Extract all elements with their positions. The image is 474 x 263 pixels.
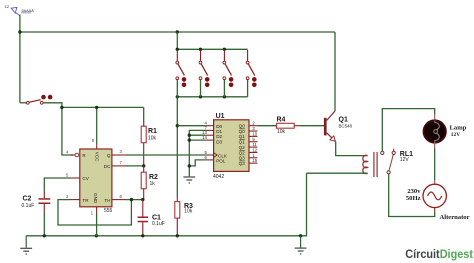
svg-text:5AAAA: 5AAAA bbox=[22, 9, 35, 13]
wire: VCC node horizontal bbox=[43, 103, 62, 108]
svg-text:D3: D3 bbox=[216, 139, 222, 144]
wire: D0 bbox=[177, 125, 205, 127]
node: top-left junction bbox=[18, 30, 21, 33]
svg-text:POL: POL bbox=[216, 158, 226, 163]
relay RL1 bbox=[363, 149, 413, 177]
node: VCC-drop junction bbox=[95, 106, 98, 109]
wire: DC node bbox=[125, 165, 144, 167]
wire: bottom ground rail bbox=[26, 173, 306, 236]
555 timer U2 bbox=[66, 138, 125, 216]
wire: main top rail bbox=[20, 31, 335, 33]
svg-text:Lamp: Lamp bbox=[450, 125, 467, 132]
node: D0 tap bbox=[176, 124, 179, 127]
svg-text:TR: TR bbox=[82, 198, 89, 203]
svg-text:10k: 10k bbox=[277, 129, 286, 135]
core bars bbox=[373, 152, 375, 177]
svg-text:Q3: Q3 bbox=[239, 161, 246, 166]
ground (U1 data inputs) bbox=[183, 177, 195, 183]
svg-text:12: 12 bbox=[5, 4, 10, 9]
svg-text:C2: C2 bbox=[23, 196, 32, 203]
svg-text:14: 14 bbox=[202, 135, 207, 140]
wire: pre-switch segment bbox=[20, 102, 27, 104]
wire: POL to ground net bbox=[189, 160, 205, 166]
contacts bbox=[381, 151, 384, 154]
svg-text:Q2: Q2 bbox=[239, 145, 246, 150]
right pin stubs bbox=[249, 126, 257, 163]
wire: switch bottom rail bbox=[177, 96, 247, 98]
node: reset-drop junction bbox=[60, 106, 63, 109]
wire: TH node bbox=[125, 199, 143, 201]
pin 6 TH bbox=[112, 199, 125, 201]
svg-text:Q0: Q0 bbox=[239, 129, 246, 134]
resistor R3 bbox=[175, 198, 193, 236]
svg-text:R4: R4 bbox=[277, 117, 286, 124]
wire: coil bottom return bbox=[307, 172, 368, 174]
resistor R4 bbox=[257, 117, 299, 136]
svg-text:50Hz: 50Hz bbox=[406, 195, 421, 202]
svg-text:555: 555 bbox=[104, 208, 113, 214]
pin 1 GND bbox=[96, 207, 98, 213]
wire: collector to top rail bbox=[334, 32, 336, 111]
svg-text:Q: Q bbox=[107, 153, 111, 158]
wire: lamp to alternator bbox=[434, 142, 436, 148]
svg-text:TH: TH bbox=[104, 198, 110, 203]
wire: D1/D2/D3 to ground net bbox=[189, 130, 205, 176]
svg-text:0.1uF: 0.1uF bbox=[152, 221, 165, 227]
wire: switch feed vertical bbox=[176, 32, 178, 49]
svg-text:VCC: VCC bbox=[94, 152, 99, 162]
switch SW4 (vertical) bbox=[246, 50, 256, 97]
ground (bottom-left) bbox=[20, 236, 32, 254]
svg-text:12V: 12V bbox=[451, 132, 460, 138]
svg-text:12V: 12V bbox=[400, 157, 410, 163]
svg-text:11: 11 bbox=[252, 142, 257, 147]
node: D2/D3 junctions bbox=[188, 134, 191, 137]
wire: drop to 555 VCC bbox=[96, 107, 98, 144]
svg-text:1k: 1k bbox=[150, 181, 156, 187]
node: top rail junctions bbox=[176, 48, 179, 51]
svg-text:R1: R1 bbox=[148, 128, 157, 135]
svg-text:12: 12 bbox=[252, 147, 257, 152]
svg-text:Q0: Q0 bbox=[239, 124, 246, 129]
svg-text:BC548: BC548 bbox=[339, 123, 353, 128]
node: top rail to switch feed bbox=[176, 30, 179, 33]
node: TH/R2/C1 junction bbox=[141, 198, 144, 201]
pin 7 DC bbox=[112, 165, 125, 167]
wire: relay NO contact up to lamp branch bbox=[382, 109, 434, 152]
wire: 555 GND drop bbox=[96, 213, 98, 236]
wire: R4 to Q1 base bbox=[300, 125, 325, 127]
wire: switch column down to D0 / R3 bbox=[176, 97, 178, 198]
wire: switch top rail bbox=[177, 48, 247, 50]
svg-text:DC: DC bbox=[104, 164, 111, 169]
ground (bottom-center) bbox=[295, 236, 307, 254]
svg-text:U1: U1 bbox=[216, 113, 225, 120]
left pin stubs bbox=[205, 126, 213, 160]
node: bottom rail junctions bbox=[176, 95, 179, 98]
transistor Q1 BC548 bbox=[324, 111, 353, 141]
svg-text:10: 10 bbox=[252, 131, 257, 136]
capacitor C1 bbox=[138, 200, 165, 236]
wire: Q to CLK bbox=[125, 154, 205, 156]
switch SW2 (vertical) bbox=[199, 50, 209, 97]
node: TH/TR junction bbox=[130, 198, 133, 201]
pin 8 VCC bbox=[96, 145, 98, 149]
svg-text:Alternator: Alternator bbox=[440, 214, 470, 221]
clock chevron bbox=[214, 153, 218, 158]
alternator V1 bbox=[406, 184, 470, 221]
pin 5 CV bbox=[70, 177, 80, 179]
svg-text:4042: 4042 bbox=[213, 174, 224, 180]
lamp bbox=[424, 120, 467, 142]
pin 2 TR bbox=[70, 199, 80, 201]
wire: TR feedback loop bbox=[58, 200, 131, 225]
svg-text:15: 15 bbox=[252, 158, 257, 163]
node: DC/R1/R2 junction bbox=[142, 164, 145, 167]
overlines for inverted outputs bbox=[239, 129, 245, 161]
node: POL junction bbox=[188, 164, 191, 167]
switch SW-main (horizontal, left) bbox=[26, 95, 52, 104]
svg-text:10k: 10k bbox=[184, 209, 193, 215]
svg-text:CV: CV bbox=[82, 176, 89, 181]
wire: emitter down to relay coil bbox=[336, 142, 368, 156]
resistor R2 bbox=[141, 166, 158, 200]
switch SW1 (vertical) bbox=[176, 50, 186, 97]
svg-text:CírcuitDigest: CírcuitDigest bbox=[405, 247, 473, 261]
svg-text:Q1: Q1 bbox=[239, 140, 246, 145]
node: ground rail junctions bbox=[43, 234, 46, 237]
svg-text:Q2: Q2 bbox=[239, 150, 246, 155]
pin 3 Q bbox=[112, 154, 125, 156]
svg-text:10k: 10k bbox=[148, 136, 157, 142]
capacitor C2 bbox=[22, 178, 71, 236]
wire: alternator bottom to relay pole bbox=[434, 207, 436, 212]
wire: drop to 555 reset bbox=[62, 107, 74, 155]
IC U1 4042 bbox=[202, 113, 258, 180]
svg-text:Q1: Q1 bbox=[239, 134, 246, 139]
svg-text:GND: GND bbox=[93, 193, 98, 204]
pin 4 R with bubble bbox=[70, 154, 75, 156]
svg-text:Q3: Q3 bbox=[239, 156, 246, 161]
coil bbox=[363, 155, 368, 173]
resistor R1 bbox=[141, 107, 157, 165]
svg-text:0.1uF: 0.1uF bbox=[22, 203, 35, 209]
wire: terminal drop + left vertical bbox=[19, 15, 21, 103]
power terminal (blue, top-left) bbox=[11, 7, 20, 15]
switch SW3 (vertical) bbox=[223, 50, 233, 97]
